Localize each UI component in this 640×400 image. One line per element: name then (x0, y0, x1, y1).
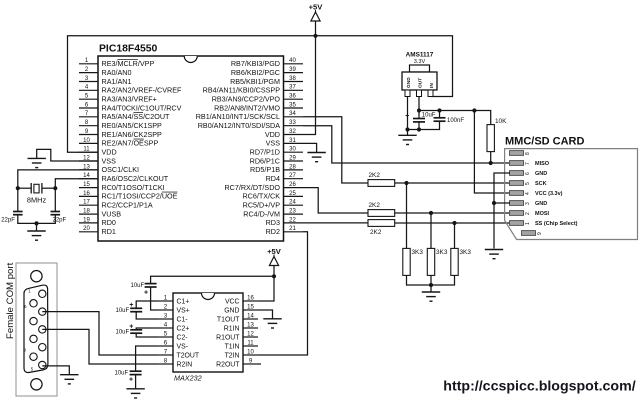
pin 8 stub + number + label (RE0/AN5/CK1SPP) (79, 120, 162, 130)
pin 3 stub + number + label (RA1/AN1) (79, 76, 131, 86)
svg-text:16: 16 (83, 191, 90, 197)
svg-text:RB7/KBI3/PGD: RB7/KBI3/PGD (231, 59, 280, 68)
svg-text:19: 19 (83, 217, 90, 223)
svg-text:RD1: RD1 (102, 227, 116, 236)
svg-text:34: 34 (289, 111, 296, 117)
wire RD2 pin 21 to MAX232 T2IN pin 10 (258, 232, 308, 355)
svg-text:RD5/P1B: RD5/P1B (250, 165, 280, 174)
svg-text:37: 37 (289, 85, 296, 91)
svg-text:8MHz: 8MHz (27, 196, 47, 205)
svg-text:5: 5 (525, 182, 531, 185)
wire +5V branch to 10uF (VS+) (151, 276, 274, 283)
svg-text:+: + (405, 113, 409, 120)
svg-text:2: 2 (525, 212, 531, 215)
pin 27 stub + number + label (RD4) (266, 173, 303, 183)
ground at MAX232 GND (263, 319, 281, 328)
svg-text:21: 21 (289, 226, 296, 232)
IC U1 PIC18F4550 body (98, 44, 284, 242)
svg-text:22: 22 (289, 217, 296, 223)
pin 11 stub + number + label (VDD) (79, 147, 117, 157)
wire VSS pin 31 to ground (303, 143, 317, 152)
svg-text:RB3/AN9/CCP2/VPO: RB3/AN9/CCP2/VPO (212, 95, 281, 104)
svg-text:RA2/AN2/VREF-/CVREF: RA2/AN2/VREF-/CVREF (102, 86, 182, 95)
IC U3 AMS1117-3.3 voltage regulator (402, 52, 437, 97)
svg-text:RA3/AN3/VREF+: RA3/AN3/VREF+ (102, 95, 157, 104)
+5V supply symbol (bottom) (267, 247, 282, 276)
pin 40 stub + number + label (RB7/KBI3/PGD) (231, 58, 303, 68)
svg-text:RD6/P1C: RD6/P1C (250, 156, 280, 165)
svg-text:VDD: VDD (265, 130, 280, 139)
wire 100nF top to 3.3V rail (439, 111, 441, 118)
DB9 pin 4 socket (39, 344, 46, 351)
pin 4 stub + number + label (RA2/AN2/VREF-/CVREF) (79, 85, 182, 95)
svg-text:RE3/MCLR/VPP: RE3/MCLR/VPP (102, 59, 155, 68)
svg-text:3K3: 3K3 (412, 249, 424, 256)
svg-text:MAX232: MAX232 (174, 374, 202, 383)
DB9 mounting hole (top) (31, 271, 42, 282)
svg-text:T2IN: T2IN (225, 352, 240, 359)
ground at VSS pin 31 (307, 153, 325, 162)
ground below 3K3 divider (422, 292, 440, 301)
wire AMS1117 GND pin down to ground (407, 97, 409, 136)
svg-text:IN: IN (429, 83, 435, 88)
svg-text:4: 4 (525, 192, 531, 195)
pin 36 stub + number + label (RB3/AN9/CCP2/VPO) (212, 94, 303, 104)
junction 3.3V rail / 100nF (437, 108, 441, 112)
pin 6 stub + number + label (RA4/T0CKI/C1OUT/RCV) (79, 102, 182, 112)
svg-text:6: 6 (164, 339, 168, 346)
svg-text:2K2: 2K2 (369, 172, 381, 179)
MAX232 pin 5 stub + number + label (C2-) (158, 330, 188, 341)
svg-text:RB0/AN12/INT0/SDI/SDA: RB0/AN12/INT0/SDI/SDA (198, 121, 280, 130)
svg-text:3: 3 (525, 202, 531, 205)
junction 3.3V rail / VCC branch (472, 108, 476, 112)
pin 25 stub + number + label (RC6/TX/CK) (242, 191, 303, 201)
svg-text:+: + (129, 323, 133, 330)
svg-text:RC4/D-/VM: RC4/D-/VM (243, 209, 280, 218)
svg-text:RC7/RX/DT/SDO: RC7/RX/DT/SDO (224, 183, 280, 192)
svg-text:RE2/AN7/OESPP: RE2/AN7/OESPP (102, 139, 159, 148)
DB9 pin 7 socket (30, 317, 37, 324)
svg-text:OUT: OUT (417, 78, 423, 88)
resistor R4 2K2 (SS) (368, 220, 395, 236)
resistor R1 10K pull-up (487, 118, 507, 152)
svg-text:MISO: MISO (535, 161, 550, 167)
resistor R5 3K3 (403, 248, 424, 275)
junction SCK / 3K3 divider (404, 181, 408, 185)
connector J1 female COM port outer plate (16, 263, 57, 396)
MAX232 pin 6 stub + number + label (VS-) (158, 339, 188, 350)
svg-text:RD7/P1D: RD7/P1D (250, 148, 280, 157)
MAX232 pin 16 stub + number + label (VCC) (225, 295, 258, 305)
SD card pin 5 pad (SCK) (510, 181, 547, 187)
DB9 pin index labels 1/6/9/5 (24, 289, 34, 372)
resistor R7 3K3 (451, 248, 472, 275)
MAX232 pin 2 stub + number + label (VS+) (158, 303, 190, 314)
pin 9 stub + number + label (RE1/AN6/CK2SPP) (79, 129, 162, 139)
svg-text:16: 16 (247, 295, 254, 301)
wire 10uF to MAX232 pin 3 C1- (136, 312, 158, 319)
pin 22 stub + number + label (RD3) (266, 217, 303, 227)
wire 10uF bottom to gnd bus (418, 122, 420, 130)
svg-text:4: 4 (164, 321, 168, 328)
DB9 D-sub face outline (24, 285, 48, 372)
svg-text:C1+: C1+ (177, 298, 190, 305)
svg-text:40: 40 (289, 58, 296, 64)
resistor R3 2K2 (MOSI) (368, 202, 395, 217)
svg-text:http://ccspicc.blogspot.com/: http://ccspicc.blogspot.com/ (443, 379, 635, 395)
ground at DB9 pin 5 (60, 375, 78, 384)
svg-text:T1IN: T1IN (225, 343, 240, 350)
svg-text:12: 12 (247, 331, 254, 337)
ground at AMS1117 GND (398, 135, 416, 144)
pin 32 stub + number + label (VDD) (265, 129, 303, 139)
junction 10K / MISO (489, 161, 493, 165)
svg-text:VCC (3.3v): VCC (3.3v) (535, 191, 563, 197)
pin 39 stub + number + label (RB6/KBI2/PGC) (231, 67, 303, 77)
svg-text:10: 10 (83, 138, 90, 144)
MAX232 pin 15 stub + number + label (GND) (224, 304, 258, 314)
svg-text:22pF: 22pF (53, 218, 67, 224)
pin 33 stub + number + label (RB0/AN12/INT0/SDI/SDA) (198, 120, 303, 130)
svg-text:R2IN: R2IN (177, 361, 193, 368)
DB9 mounting hole (bottom) (31, 379, 42, 390)
svg-text:RD2: RD2 (266, 227, 280, 236)
svg-text:T2OUT: T2OUT (177, 352, 200, 359)
svg-text:3: 3 (164, 312, 168, 319)
svg-text:25: 25 (289, 191, 296, 197)
wire MAX232 pin 1 C1+ to 10uF (136, 301, 158, 308)
pin 30 stub + number + label (RD7/P1D) (250, 147, 303, 157)
svg-text:RB2/AN8/INT2/VMO: RB2/AN8/INT2/VMO (214, 103, 280, 112)
svg-text:18: 18 (83, 209, 90, 215)
svg-text:+: + (144, 290, 148, 297)
svg-text:1: 1 (164, 294, 168, 301)
wire SD GND pins 6+3 to ground (494, 173, 510, 249)
svg-text:RB4/AN11/KBI0/CSSPP: RB4/AN11/KBI0/CSSPP (203, 86, 281, 95)
junction 3.3V rail / OUT+10uF (417, 108, 421, 112)
pin 17 stub + number + label (RC2/CCP1/P1A) (79, 200, 153, 210)
svg-text:38: 38 (289, 76, 296, 82)
MAX232 pin 4 stub + number + label (C2+) (158, 321, 189, 332)
svg-text:9: 9 (537, 232, 543, 235)
svg-text:23: 23 (289, 209, 296, 215)
pin 26 stub + number + label (RC7/RX/DT/SDO) (224, 182, 303, 192)
svg-text:RA1/AN1: RA1/AN1 (102, 77, 132, 86)
svg-text:100nF: 100nF (447, 118, 464, 124)
DB9 pin 8 socket (30, 335, 37, 342)
pin 28 stub + number + label (RD5/P1B) (250, 164, 303, 174)
svg-text:C2-: C2- (177, 334, 188, 341)
svg-text:13: 13 (247, 322, 254, 328)
svg-text:14: 14 (247, 313, 254, 319)
junction 22pF common node (34, 221, 38, 225)
junction gnd bus / GND pin (405, 127, 409, 131)
wire DB9 pin 3 to MAX232 R2IN pin 8 (42, 329, 158, 364)
pin 15 stub + number + label (RC0/T1OSO/T1CKI) (79, 182, 165, 192)
pin 29 stub + number + label (RD6/P1C) (250, 155, 303, 165)
resistor R2 2K2 (SCK) (368, 172, 395, 187)
pin 10 stub + number + label (RE2/AN7/OESPP) (79, 138, 158, 148)
wire SCK after 2K2 to SD pin 5 (395, 182, 510, 184)
ground at VSS pin 12 (28, 158, 46, 167)
svg-text:17: 17 (83, 200, 90, 206)
svg-text:MMC/SD CARD: MMC/SD CARD (505, 136, 584, 148)
junction gnd bus / 10uF (417, 127, 421, 131)
junction +5V rail / VDD branch (313, 34, 317, 38)
svg-text:RD0: RD0 (102, 218, 116, 227)
svg-text:6: 6 (525, 172, 531, 175)
pin 31 stub + number + label (VSS) (266, 138, 303, 148)
svg-text:RB1/AN10/INT1/SCK/SCL: RB1/AN10/INT1/SCK/SCL (196, 112, 280, 121)
svg-text:28: 28 (289, 164, 296, 170)
svg-text:35: 35 (289, 102, 296, 108)
svg-text:GND: GND (535, 201, 547, 207)
svg-text:Female COM port: Female COM port (5, 262, 16, 339)
pin 21 stub + number + label (RD2) (266, 226, 303, 236)
junction 3K3 common ground node (429, 283, 433, 287)
pin 18 stub + number + label (VUSB) (79, 209, 121, 219)
wire VSS pin 12 jog to ground (37, 149, 98, 161)
wire OSC1 pin 13 to crystal left node (18, 170, 98, 212)
svg-text:RC0/T1OSO/T1CKI: RC0/T1OSO/T1CKI (102, 183, 165, 192)
DB9 pin 5 socket (39, 361, 46, 368)
wire DB9 pin 5 to ground (42, 366, 69, 375)
svg-text:5: 5 (164, 330, 168, 337)
junction crystal right / OSC2 (53, 186, 57, 190)
svg-text:10: 10 (247, 349, 254, 355)
MAX232 pin 11 stub + number + label (T1IN) (225, 340, 258, 350)
svg-text:R2OUT: R2OUT (216, 361, 240, 368)
pin 23 stub + number + label (RC4/D-/VM) (243, 209, 303, 219)
pin 12 stub + number + label (VSS) (79, 155, 116, 165)
svg-text:26: 26 (289, 182, 296, 188)
MAX232 pin 9 stub + number + label (R2OUT) (216, 358, 258, 368)
junction SS / 3K3 divider (452, 221, 456, 225)
MAX232 pin 10 stub + number + label (T2IN) (225, 349, 258, 359)
capacitor C7 10uF (C2+/C2-) (116, 323, 143, 335)
pin 34 stub + number + label (RB1/AN10/INT1/SCK/SCL) (196, 111, 303, 121)
MAX232 pin 12 stub + number + label (R1OUT) (216, 331, 258, 341)
wire OSC2 pin 14 to crystal right node (55, 179, 98, 212)
svg-text:R1OUT: R1OUT (216, 334, 240, 341)
DB9 pin 3 socket (39, 326, 46, 333)
ground below SD card (485, 250, 503, 259)
svg-text:3.3V: 3.3V (414, 59, 426, 65)
SD card pin 2 pad (MOSI) (510, 211, 550, 217)
svg-text:RB6/KBI2/PGC: RB6/KBI2/PGC (231, 68, 280, 77)
svg-text:VUSB: VUSB (102, 209, 122, 218)
wire 10uF bottom to ground (135, 375, 137, 389)
svg-text:C1-: C1- (177, 316, 188, 323)
svg-text:24: 24 (289, 200, 296, 206)
pin 35 stub + number + label (RB2/AN8/INT2/VMO) (214, 102, 303, 112)
wire MAX232 R2OUT pin 9 stub extension (258, 363, 261, 365)
SD card pin 3 pad (GND) (510, 201, 548, 207)
wire MOSI after 2K2 to SD pin 2 (395, 212, 510, 214)
junction MOSI / 3K3 divider (429, 211, 433, 215)
wire 3K3 (MOSI) top lead (430, 213, 432, 248)
svg-text:VDD: VDD (102, 148, 117, 157)
svg-text:15: 15 (247, 304, 254, 310)
pin 14 stub + number + label (RA6/OSC2/CLKOUT) (79, 173, 169, 183)
pin 38 stub + number + label (RB5/KBI1/PGM) (230, 76, 303, 86)
svg-text:C2+: C2+ (177, 325, 190, 332)
wire 10K bottom to MISO line (490, 152, 492, 163)
svg-text:10uF: 10uF (116, 330, 130, 336)
MAX232 pin 7 stub + number + label (T2OUT) (158, 348, 200, 359)
DB9 pin 1 socket (39, 290, 46, 297)
svg-text:RA5/AN4/SS/C2OUT: RA5/AN4/SS/C2OUT (102, 112, 171, 121)
svg-text:VS-: VS- (177, 343, 189, 350)
svg-text:36: 36 (289, 94, 296, 100)
wire MAX232 pin 4 C2+ to 10uF (136, 328, 158, 330)
junction crystal left / OSC1 (16, 186, 20, 190)
MAX232 pin 13 stub + number + label (R1IN) (224, 322, 258, 332)
wire 10uF to MAX232 pin 2 VS+ (151, 287, 158, 310)
svg-text:PIC18F4550: PIC18F4550 (99, 44, 158, 55)
svg-text:20: 20 (83, 226, 90, 232)
capacitor C3 10uF electrolytic (3.3V) (405, 112, 436, 122)
svg-text:RC6/TX/CK: RC6/TX/CK (242, 192, 280, 201)
svg-text:AMS1117: AMS1117 (406, 52, 434, 59)
wire SS after 2K2 to SD pin 1 (395, 222, 510, 224)
capacitor C8 10uF (VS-) (115, 371, 142, 384)
svg-text:11: 11 (247, 340, 254, 346)
svg-text:OSC1/CLKI: OSC1/CLKI (102, 165, 140, 174)
svg-text:2: 2 (164, 303, 168, 310)
connector J2 MMC/SD CARD outline (505, 136, 638, 240)
svg-text:VS+: VS+ (177, 307, 190, 314)
svg-text:VSS: VSS (102, 156, 117, 165)
svg-text:RA0/AN0: RA0/AN0 (102, 68, 132, 77)
svg-text:3K3: 3K3 (460, 249, 472, 256)
DB9 pin 6 socket (30, 300, 37, 307)
SD card pin 7 pad (MISO) (510, 161, 550, 167)
svg-text:7: 7 (164, 348, 168, 355)
SD card pin 9 pad (522, 231, 544, 236)
svg-text:10uF: 10uF (131, 283, 145, 289)
svg-text:SCK: SCK (535, 181, 547, 187)
svg-text:RA6/OSC2/CLKOUT: RA6/OSC2/CLKOUT (102, 174, 169, 183)
ground below VS- 10uF (126, 389, 144, 398)
svg-text:27: 27 (289, 173, 296, 179)
svg-text:SS (Chip Select): SS (Chip Select) (535, 221, 578, 227)
SD card pin 4 pad (VCC (3.3v)) (510, 191, 563, 197)
svg-text:GND: GND (406, 77, 412, 88)
svg-text:10uF: 10uF (115, 371, 129, 377)
wire 22pF caps bottoms to common ground (18, 215, 56, 231)
junction SD GND pins (492, 201, 496, 205)
DB9 pin 2 socket (39, 308, 46, 315)
MAX232 pin 14 stub + number + label (T1OUT) (217, 313, 258, 323)
svg-text:VSS: VSS (266, 139, 281, 148)
wire 3K3 (SCK) top lead (406, 183, 408, 248)
wire 3K3 (SS) top lead (454, 223, 456, 248)
pin 24 stub + number + label (RC5/D+/VP) (243, 200, 303, 210)
svg-text:10uF: 10uF (116, 308, 130, 314)
svg-text:2K2: 2K2 (369, 202, 381, 209)
svg-text:+: + (129, 302, 133, 309)
wire crystal left lead (18, 187, 31, 189)
svg-text:10K: 10K (495, 118, 507, 125)
svg-text:RA4/T0CKI/C1OUT/RCV: RA4/T0CKI/C1OUT/RCV (102, 103, 182, 112)
MAX232 pin 8 stub + number + label (R2IN) (158, 357, 192, 368)
svg-text:+: + (129, 377, 133, 384)
svg-text:RC1/T1OSI/CCP2/UOE: RC1/T1OSI/CCP2/UOE (102, 192, 178, 201)
pin 37 stub + number + label (RB4/AN11/KBI0/CSSPP) (203, 85, 303, 95)
svg-text:RD4: RD4 (266, 174, 280, 183)
wire MISO: pin 33 right and down to SD pin 7 (303, 126, 510, 163)
svg-text:30: 30 (289, 147, 296, 153)
svg-text:MOSI: MOSI (535, 211, 550, 217)
svg-text:RE1/AN6/CK2SPP: RE1/AN6/CK2SPP (102, 130, 163, 139)
svg-text:GND: GND (224, 307, 239, 314)
wire 3K3 bottoms common (407, 275, 455, 292)
svg-text:1: 1 (525, 222, 531, 225)
svg-text:39: 39 (289, 67, 296, 73)
svg-text:R1IN: R1IN (224, 325, 240, 332)
svg-text:RD3: RD3 (266, 218, 280, 227)
capacitor C2 22pF (right) (51, 212, 67, 224)
pin 16 stub + number + label (RC1/T1OSI/CCP2/UOE) (79, 191, 178, 201)
pin 13 stub + number + label (OSC1/CLKI) (79, 164, 139, 174)
svg-text:RC2/CCP1/P1A: RC2/CCP1/P1A (102, 201, 153, 210)
wire SCK: pin 34 right and down (303, 117, 368, 183)
capacitor C4 100nF (434, 118, 465, 124)
wire MAX232 pin 6 VS- to 10uF (136, 346, 158, 371)
svg-text:RC5/D+/VP: RC5/D+/VP (243, 201, 281, 210)
MAX232 pin 3 stub + number + label (C1-) (158, 312, 188, 323)
pin 1 stub + number + label (RE3/MCLR/VPP) (79, 58, 154, 68)
wire 3.3V to SD VCC pin 4 (474, 111, 510, 194)
wire MOSI: pin 26 right and down (303, 188, 368, 213)
svg-text:RB5/KBI1/PGM: RB5/KBI1/PGM (230, 77, 280, 86)
pin 5 stub + number + label (RA3/AN3/VREF+) (79, 94, 157, 104)
capacitor C1 22pF (left) (1, 212, 22, 224)
wire +5V rail: top-left vertical to VDD pin 11, top horizontal, drop to AMS1117 IN (68, 36, 453, 152)
+5V supply symbol (top) (309, 3, 324, 36)
wire gnd bus below regulator (408, 121, 440, 129)
resistor R6 3K3 (427, 248, 448, 275)
svg-text:VCC: VCC (225, 298, 240, 305)
svg-text:32: 32 (289, 129, 296, 135)
wire 10uF to MAX232 pin 5 C2- (136, 333, 158, 337)
pin 19 stub + number + label (RD0) (79, 217, 116, 227)
svg-text:31: 31 (289, 138, 296, 144)
wire DB9 pin 2 to MAX232 T2OUT pin 7 (42, 312, 158, 355)
wire MAX232 GND pin 15 to ground (258, 310, 273, 319)
wire SS: pin 22 to 2K2 (303, 222, 368, 224)
wire crystal right lead (42, 187, 55, 189)
svg-text:7: 7 (525, 162, 531, 165)
svg-text:22pF: 22pF (1, 218, 15, 224)
svg-text:RE0/AN5/CK1SPP: RE0/AN5/CK1SPP (102, 121, 163, 130)
junction +5V / 10uF branch (272, 274, 276, 278)
wire AMS1117 OUT pin down / 3.3V rail to 10K (419, 97, 491, 125)
SD card pin 8 pad (510, 151, 532, 156)
svg-text:3K3: 3K3 (436, 249, 448, 256)
wire VDD pin 32 to +5V rail (303, 36, 316, 135)
svg-text:33: 33 (289, 120, 296, 126)
pin 20 stub + number + label (RD1) (79, 226, 116, 236)
capacitor C6 10uF (C1+/C1-) (116, 302, 143, 314)
capacitor C5 10uF (VS+) (131, 283, 157, 297)
ground below crystal caps (27, 231, 45, 240)
SD card pin 1 pad (510, 221, 578, 227)
svg-text:8: 8 (164, 357, 168, 364)
svg-text:T1OUT: T1OUT (217, 316, 240, 323)
